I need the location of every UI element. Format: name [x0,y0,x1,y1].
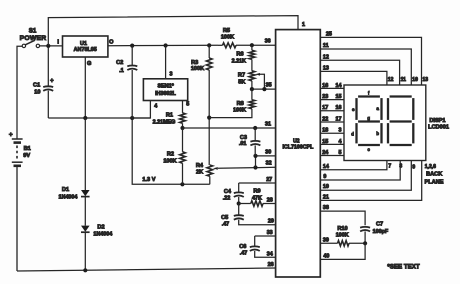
svg-text:100pF: 100pF [373,229,389,235]
svg-text:BACK: BACK [426,172,442,178]
svg-text:IH3602L: IH3602L [155,91,176,97]
svg-text:3: 3 [339,128,342,134]
svg-text:C4: C4 [224,189,232,195]
svg-text:DISP1: DISP1 [429,118,445,124]
label segment a [376,106,379,111]
wire U2 pin 17 to display pin 16 [320,105,344,111]
svg-text:29: 29 [268,219,274,225]
capacitor C3 [239,128,261,156]
svg-text:5: 5 [339,150,342,156]
resistor R9 [239,189,263,207]
svg-text:7: 7 [388,164,391,170]
wire U2 pin 13 to display pin 12 [320,65,387,85]
svg-text:100K: 100K [221,35,234,41]
svg-text:10: 10 [323,184,329,190]
potentiometer R7 [238,71,264,89]
wire ground rail [48,116,150,120]
svg-text:25: 25 [326,31,332,37]
svg-text:R7: R7 [238,73,245,79]
svg-text:100K: 100K [163,158,176,164]
svg-text:POWER: POWER [20,35,47,42]
svg-text:18: 18 [322,128,328,134]
svg-text:9: 9 [323,174,326,180]
capacitor C5 [221,204,275,228]
label display bottom pin 8 [399,164,402,170]
svg-text:36: 36 [265,39,271,45]
resistor R8 [209,89,255,118]
svg-text:R10: R10 [337,226,347,232]
svg-text:12: 12 [323,54,329,60]
svg-text:24: 24 [322,150,328,156]
wire U2 pin 15 to display pin 4 [320,139,344,145]
label display top pin 11 [401,77,407,83]
svg-text:PLANE: PLANE [425,180,444,186]
op-amp U2 ICL7106CPL [276,30,321,277]
node top rail from switch node to IC pin 1 [48,16,298,46]
pin 4 of SEN1 [132,101,157,119]
svg-text:39: 39 [323,237,329,243]
label display bottom pin 9 [412,164,415,170]
svg-text:5: 5 [186,101,189,107]
svg-text:40: 40 [323,253,329,259]
resistor R3 [191,45,212,165]
pin 5 of SEN1 [183,101,190,113]
note see text [387,263,420,270]
svg-text:R5: R5 [223,28,230,34]
svg-text:34: 34 [267,251,273,257]
wire U2 pin 33 [255,230,276,236]
label segment f [368,91,370,96]
node 1.3 V label [142,177,155,183]
svg-text:3: 3 [170,71,173,77]
resistor R6 [232,45,255,71]
label U2 pin 36 [265,39,271,45]
wire battery positive to switch S1 [17,46,22,139]
svg-text:21: 21 [323,194,329,200]
svg-text:100K: 100K [336,233,349,239]
svg-text:15: 15 [322,139,328,145]
svg-text:R4: R4 [196,163,204,169]
svg-text:a: a [376,106,379,111]
svg-text:*SEE TEXT: *SEE TEXT [387,263,420,270]
wire U2 pin 40 (OSC1) [320,243,365,259]
svg-text:16: 16 [336,105,342,111]
label DISP1 [429,118,445,124]
svg-text:R9: R9 [253,189,260,195]
diode D2 [81,197,112,271]
label segment d [351,131,354,136]
wire switch to U1 input [40,44,63,48]
label segment c [368,147,371,152]
svg-text:2K: 2K [196,169,203,175]
capacitor C2 [116,46,137,118]
svg-text:13: 13 [323,65,329,71]
svg-text:AN78L05: AN78L05 [74,47,97,53]
capacitor C4 [223,183,244,206]
label display bottom pin 7 [388,164,391,170]
label U2 pin 32 [266,161,272,167]
resistor R2 [163,128,185,184]
svg-text:e: e [352,107,355,112]
svg-text:b: b [376,131,379,136]
display digit 2 (7-segment) [388,97,413,146]
potentiometer R4 [196,163,218,184]
wire U1 ground stub [84,57,86,118]
wire U2 pin 21 to display backplane [320,161,421,201]
wire U2 pin 9 to display pin 8 [320,161,400,181]
svg-text:15: 15 [336,94,342,100]
svg-text:C2: C2 [116,60,123,66]
svg-text:2.21K: 2.21K [232,58,246,64]
svg-text:U2: U2 [293,138,300,144]
wire U2 pin 16 to display pin 14 [320,83,344,89]
svg-text:O: O [109,39,114,45]
svg-text:C3: C3 [240,135,247,141]
svg-text:g: g [367,115,370,120]
label U2 pin 29 [268,219,274,225]
wire R4 wiper to U2 pins 30/32 [218,154,276,170]
diode D1 [59,118,90,200]
svg-text:D1: D1 [62,187,69,193]
wire U2 pin 35 (REF LO) [250,82,276,91]
svg-text:d: d [351,131,354,136]
svg-text:100K: 100K [191,66,204,72]
svg-text:11: 11 [323,43,329,49]
svg-text:.22: .22 [223,195,231,201]
svg-text:47K: 47K [252,196,262,202]
svg-text:ICL7106CPL: ICL7106CPL [282,145,314,151]
regulator U1 [57,36,114,67]
svg-text:31: 31 [265,121,271,127]
svg-text:1N4004: 1N4004 [59,194,78,200]
svg-text:G: G [87,61,91,67]
wire U2 pin 10 to display pin 9 [320,161,411,191]
display digit 1 (7-segment) [357,97,382,146]
svg-text:+: + [50,79,54,85]
svg-text:C7: C7 [376,221,383,227]
wire U2 pin 23 to display pin 15 [320,94,344,100]
wire bottom rail (battery negative to U2 pin 26) [17,268,276,272]
svg-text:5K: 5K [238,79,245,85]
svg-text:16: 16 [322,83,328,89]
svg-text:.01: .01 [239,141,247,147]
wire U2 pin 27 (INT) [239,177,276,183]
capacitor C1 [33,47,54,118]
wire U2 pin 24 to display pin 5 [320,150,344,156]
wire common node down to 1.3 V rail [132,118,210,186]
wire +5V rail from U1 output [108,43,276,48]
svg-text:C1: C1 [33,82,40,88]
svg-text:4: 4 [154,104,157,110]
label segment b [376,131,379,136]
svg-text:30: 30 [265,149,271,155]
svg-text:LCD001: LCD001 [428,125,449,131]
resistor R5 [218,28,238,48]
resistor R1 [153,112,186,130]
wire U2 pin 39 (OSC2) / resistor R10 [320,226,367,246]
wire U2 pin 22 to display pin 17 [320,116,344,122]
svg-text:.47: .47 [222,221,230,227]
svg-text:R2: R2 [167,152,174,158]
switch S1 [20,27,47,47]
svg-text:SEN1*: SEN1* [158,84,175,90]
svg-text:4: 4 [339,139,342,145]
battery B1 [9,132,31,271]
svg-text:38: 38 [323,205,329,211]
label display top pin 10 [412,77,418,83]
svg-text:U1: U1 [80,41,87,47]
svg-text:27: 27 [266,177,272,183]
svg-text:100K: 100K [233,107,246,113]
svg-text:13: 13 [423,77,429,83]
svg-text:B1: B1 [24,146,31,152]
svg-text:14: 14 [336,83,342,89]
capacitor C7 [360,221,389,243]
svg-text:C6: C6 [239,244,246,250]
wire U2 pin 28 (BUFF) [263,197,276,203]
svg-text:8: 8 [399,164,402,170]
svg-text:1N4004: 1N4004 [93,231,112,237]
svg-text:9V: 9V [23,153,30,159]
svg-text:C5: C5 [221,215,228,221]
node backplane pins 1,2,6 [425,164,444,186]
label U2 pin 1 [302,22,305,28]
label segment e [352,107,355,112]
label display top pin 13 [423,77,429,83]
svg-text:.47: .47 [240,251,248,257]
svg-text:22: 22 [322,116,328,122]
svg-text:32: 32 [266,161,272,167]
svg-text:35: 35 [266,82,272,88]
wire U2 pin 11 to display pin 10 [320,43,411,85]
wire U2 pin 31 (IN HI) [183,121,276,130]
label U2 pin 26 [268,262,274,268]
svg-text:10: 10 [34,89,40,95]
svg-text:26: 26 [268,262,274,268]
label U2 pin 34 [267,251,273,257]
pin 3 of SEN1 [166,46,173,79]
svg-text:.1: .1 [119,68,124,74]
wire U2 pin 12 to display pin 11 [320,54,399,85]
svg-text:+: + [9,132,13,139]
svg-text:D2: D2 [97,224,104,230]
wire U2 pin 38 (OSC3) [320,205,365,225]
capacitor C6 [239,236,275,257]
display DISP1 LCD001 outline [344,85,426,161]
svg-text:28: 28 [267,197,273,203]
svg-text:1,2,6: 1,2,6 [425,164,436,170]
svg-text:33: 33 [267,230,273,236]
wire U2 pin 14 to display pin 7 [320,161,387,170]
svg-text:1: 1 [302,22,305,28]
sensor U3 SEN1 [143,79,187,101]
svg-text:17: 17 [336,116,342,122]
label segment g [367,115,370,120]
svg-text:14: 14 [323,164,329,170]
svg-text:R8: R8 [237,101,244,107]
wire U2 pin 25 to display pin 13 [320,31,421,85]
label U2 pin 30 [265,149,271,155]
svg-text:R1: R1 [166,112,173,118]
svg-text:9: 9 [412,164,415,170]
svg-text:17: 17 [322,105,328,111]
svg-text:2.21MEG: 2.21MEG [153,119,176,125]
svg-text:10: 10 [412,77,418,83]
svg-text:R6: R6 [236,52,243,58]
svg-text:1.3 V: 1.3 V [142,177,155,183]
svg-text:11: 11 [401,77,407,83]
wire U2 pin 18 to display pin 3 [320,128,344,134]
label display top pin 12 [388,77,394,83]
svg-text:12: 12 [388,77,394,83]
svg-text:23: 23 [322,94,328,100]
svg-text:S1: S1 [29,27,37,34]
label LCD001 [428,125,449,131]
